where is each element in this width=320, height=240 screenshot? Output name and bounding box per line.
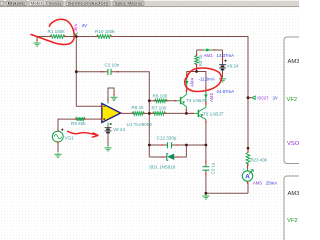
junction output cross: [148, 112, 151, 115]
svg-text:U1 TLV9002: U1 TLV9002: [127, 122, 153, 127]
plus mark V9: [224, 60, 226, 62]
junction C2 tee: [75, 70, 78, 73]
svg-text:10V: 10V: [273, 96, 278, 101]
red loop annotation around -11.6mA: [185, 68, 222, 91]
output pin VSOUT: [247, 96, 278, 101]
battery V9: [219, 58, 239, 69]
wire C3 branch down to bottom rail: [205, 145, 207, 166]
voltage generator VG1: [52, 129, 74, 144]
wire right rail R23/AM3 segment: [247, 183, 249, 194]
wire C12 parallel line: [149, 144, 167, 146]
capacitor C2: [101, 62, 120, 75]
wire bottom rail: [206, 192, 248, 194]
svg-text:AM2: AM2: [209, 92, 214, 102]
resistor R8: [153, 93, 169, 102]
wire T6 emitter down to C12 line: [205, 121, 207, 145]
svg-text:AM3: AM3: [253, 180, 263, 185]
toolbar tab Spice Macros: [113, 1, 144, 6]
svg-text:AM1: AM1: [204, 53, 214, 58]
resistor R6: [131, 105, 145, 115]
wire T3 emitter stub to base line junction: [185, 110, 187, 113]
svg-text:VF2: VF2: [287, 218, 298, 224]
wire VG1 to R9 to op-amp noninverting input: [58, 119, 76, 131]
svg-text:R4 1k: R4 1k: [198, 54, 203, 66]
capacitor C12: [157, 136, 179, 149]
svg-text:C12 330p: C12 330p: [157, 136, 177, 141]
svg-text:VSOUT:: VSOUT:: [257, 96, 269, 101]
resistor R2 vertical in mirror: [195, 54, 203, 67]
plus mark V8: [110, 123, 112, 125]
svg-text:4V: 4V: [82, 23, 89, 28]
junction SD1 riser: [185, 144, 188, 147]
svg-text:V8 24: V8 24: [113, 127, 125, 132]
toolbar tab Basic: [6, 1, 27, 6]
svg-text:AM3: AM3: [288, 59, 300, 65]
toolbar tab Semiconductors: [66, 1, 110, 6]
svg-text:C3 1u: C3 1u: [210, 162, 215, 174]
op-amp U1: [100, 94, 153, 127]
wire top rail with AM1: [197, 49, 223, 51]
junction mirror left: [195, 70, 198, 73]
ground left of R1: [33, 39, 40, 46]
toolbar background: [0, 0, 299, 7]
svg-text:24.97mA: 24.97mA: [217, 89, 235, 94]
svg-text:R9 60k: R9 60k: [71, 121, 86, 126]
ammeter AM3: [242, 164, 277, 185]
svg-text:R8 100: R8 100: [153, 93, 168, 98]
wire R8 line to T3 base: [149, 100, 176, 102]
wire R1 right to node A: [65, 36, 97, 38]
wire node A down to op-amp inverting input: [76, 37, 100, 107]
wire C2 right to middle rail: [111, 72, 149, 157]
svg-text:V9 24: V9 24: [227, 63, 239, 68]
ground at op-amp power pin: [110, 96, 117, 101]
svg-text:Meters: Meters: [31, 2, 45, 6]
junction R8 tee: [148, 99, 151, 102]
junction T6 emitter rail: [205, 144, 208, 147]
wire C2 feedback line: [76, 71, 107, 73]
instrument panel box 1: [284, 37, 304, 164]
junction node A: [75, 35, 78, 38]
ground under V9: [219, 77, 226, 82]
svg-text:Semiconductors: Semiconductors: [68, 2, 109, 6]
svg-text:AM3: AM3: [288, 191, 300, 197]
junction C12 left: [148, 144, 151, 147]
svg-text:R1 100k: R1 100k: [48, 29, 66, 34]
junction above R23: [247, 147, 250, 150]
ammeter AM2: [204, 87, 214, 104]
red lasso annotation top-left: [31, 19, 74, 44]
wire mirror left branch top: [196, 50, 198, 55]
resistor R7: [152, 106, 167, 116]
toolbar tab Sources: [47, 1, 63, 6]
svg-text:T3 1ABJT: T3 1ABJT: [186, 98, 207, 103]
svg-text:VF2: VF2: [287, 97, 298, 103]
ammeter AM1: [200, 48, 235, 58]
transistor T3: [174, 90, 206, 112]
battery V8: [105, 127, 126, 133]
svg-text:SD1 1N5818: SD1 1N5818: [149, 165, 176, 170]
svg-text:C2 10n: C2 10n: [105, 62, 120, 67]
svg-text:R23 400: R23 400: [251, 157, 268, 162]
svg-text:R10 150k: R10 150k: [95, 29, 115, 34]
wire VG1 bottom to ground: [57, 142, 59, 152]
ammeter AM4: [185, 74, 195, 92]
svg-text:Sources: Sources: [49, 2, 62, 6]
wire V9 branch: [222, 50, 224, 65]
wire SD1 line: [149, 156, 166, 158]
svg-text:R7 100: R7 100: [152, 106, 167, 111]
schottky diode SD1: [149, 154, 179, 170]
svg-text:VSO: VSO: [287, 141, 299, 147]
node A voltage pin 4V: [74, 23, 88, 36]
wire top-left horizontal to R1/R10 line: [37, 37, 50, 42]
resistor R9: [71, 117, 86, 126]
wire current-mirror link: [187, 72, 206, 89]
wire op-amp output through R6 R7 to T6 base: [121, 112, 133, 114]
transistor T6: [191, 103, 223, 123]
svg-text:Spice Macros: Spice Macros: [115, 2, 143, 6]
resistor R1: [48, 29, 67, 38]
svg-text:13.37mA: 13.37mA: [217, 53, 235, 58]
ground under VG1: [54, 153, 61, 158]
toolbar tab icon: [0, 1, 4, 6]
svg-text:-11.6mA: -11.6mA: [199, 77, 215, 82]
svg-text:AM4: AM4: [190, 77, 195, 87]
svg-text:Basic: Basic: [8, 2, 26, 6]
wire R10 right to right rail corner: [112, 37, 248, 153]
resistor R23: [246, 150, 268, 165]
junction bottom rail: [205, 192, 208, 195]
instrument panel box 2: [284, 176, 304, 240]
svg-text:25mA: 25mA: [266, 180, 278, 185]
wire op-amp top power pin to ground: [108, 88, 114, 104]
toolbar tab Meters: [29, 1, 46, 6]
svg-text:A: A: [245, 174, 250, 181]
junction T3 emitter: [185, 112, 188, 115]
ground bottom rail: [202, 195, 209, 200]
red arrow annotation near VG1: [68, 131, 99, 137]
svg-text:VG1: VG1: [65, 136, 75, 141]
wire op-amp bottom pin through V8 to ground: [107, 123, 109, 129]
capacitor C3: [203, 161, 216, 175]
resistor R10: [95, 29, 115, 38]
ground under V8: [104, 146, 111, 151]
svg-text:T6 1ABJT: T6 1ABJT: [203, 112, 224, 117]
svg-text:R6 1k: R6 1k: [132, 105, 145, 110]
